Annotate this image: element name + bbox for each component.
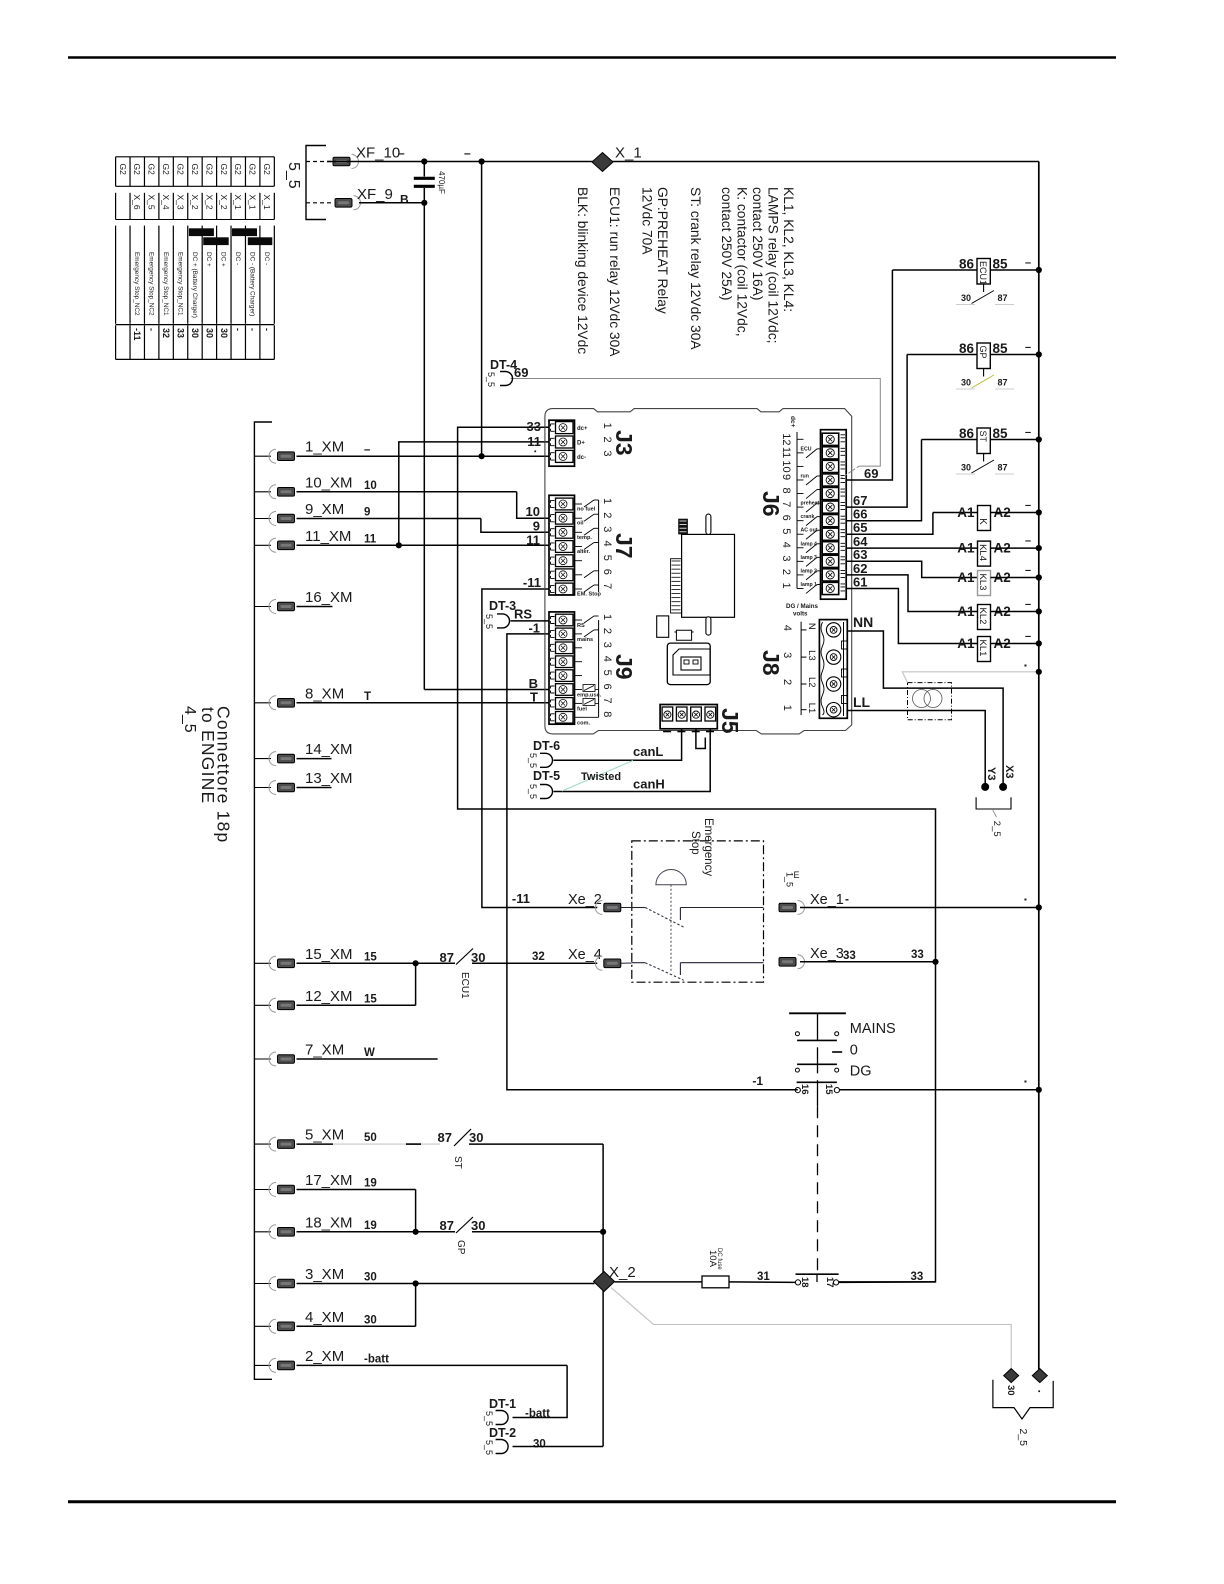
controller module outline bbox=[545, 409, 852, 734]
cable bracket 5_5 bbox=[306, 146, 326, 220]
svg-text:A1: A1 bbox=[957, 505, 975, 520]
svg-text:X3: X3 bbox=[1003, 765, 1015, 778]
junction 1_XM minus bbox=[479, 453, 485, 459]
svg-text:KL3: KL3 bbox=[977, 574, 988, 591]
svg-text:ECU1: ECU1 bbox=[978, 261, 988, 285]
svg-text:X_1: X_1 bbox=[233, 195, 243, 210]
svg-text:3: 3 bbox=[780, 555, 792, 561]
wire NN through CT to X3 bbox=[908, 688, 1004, 787]
svg-text:no fuel: no fuel bbox=[577, 507, 596, 513]
connector 11_XM bbox=[254, 544, 271, 546]
svg-text:12: 12 bbox=[780, 433, 792, 445]
svg-text:7: 7 bbox=[601, 583, 613, 589]
svg-text:A1: A1 bbox=[957, 604, 975, 619]
svg-text:Twisted: Twisted bbox=[581, 771, 621, 783]
svg-text:J3: J3 bbox=[611, 430, 637, 456]
wire XF_9 to capacitor bbox=[359, 202, 424, 204]
svg-text:X_2: X_2 bbox=[609, 1264, 636, 1281]
svg-text:11_XM: 11_XM bbox=[305, 528, 351, 545]
svg-text:DT-3: DT-3 bbox=[489, 599, 516, 613]
svg-text:alter.: alter. bbox=[577, 549, 591, 555]
svg-text:4_5: 4_5 bbox=[181, 706, 198, 733]
internal component clip bbox=[674, 630, 693, 640]
svg-text:mains: mains bbox=[577, 637, 593, 643]
emergency stop contact 2 bbox=[632, 962, 645, 964]
svg-text:2: 2 bbox=[781, 679, 793, 685]
svg-text:G2: G2 bbox=[233, 164, 243, 176]
connector 4_XM bbox=[254, 1325, 271, 1327]
J9 switch rail bbox=[598, 620, 600, 717]
svg-text:4_XM: 4_XM bbox=[305, 1309, 344, 1326]
wire 10 elbow bbox=[517, 492, 549, 518]
connector J5 bbox=[660, 705, 717, 729]
wire 4_XM bbox=[297, 1325, 416, 1327]
svg-text:run: run bbox=[801, 473, 809, 479]
svg-text:KL1: KL1 bbox=[977, 640, 988, 657]
svg-text:A1: A1 bbox=[957, 636, 975, 651]
svg-text:-: - bbox=[147, 328, 157, 331]
svg-text:NN: NN bbox=[853, 614, 873, 630]
wire ECU1 86 bbox=[892, 269, 977, 271]
svg-text:19: 19 bbox=[364, 1220, 377, 1232]
svg-text:dc-: dc- bbox=[577, 455, 586, 461]
svg-text:Xe_3: Xe_3 bbox=[810, 946, 844, 962]
svg-text:30: 30 bbox=[469, 1130, 483, 1145]
wire contact 17 to 33 bbox=[839, 1281, 936, 1284]
relay GP contact 30-87 bbox=[983, 369, 985, 377]
wire 17_XM bbox=[297, 1189, 416, 1191]
svg-text:DT-5: DT-5 bbox=[533, 769, 560, 783]
svg-text:Xe_2: Xe_2 bbox=[568, 892, 602, 908]
wire 33 net bbox=[458, 427, 936, 1282]
wire GP 85 to bus bbox=[990, 354, 1039, 356]
svg-text:J9: J9 bbox=[611, 654, 637, 680]
svg-text:1: 1 bbox=[781, 705, 793, 711]
wire 5_XM gray segment bbox=[333, 1143, 440, 1145]
svg-text:-1: -1 bbox=[752, 1074, 763, 1088]
svg-text:50: 50 bbox=[364, 1132, 377, 1144]
emergency stop box bbox=[632, 841, 764, 982]
connector XF_10 bbox=[306, 161, 332, 163]
svg-text:3_XM: 3_XM bbox=[305, 1266, 344, 1283]
wire ST 86 bbox=[922, 439, 978, 441]
wire 11_XM bbox=[297, 544, 550, 546]
svg-text:fuel: fuel bbox=[577, 706, 587, 712]
relay KL4 coil bbox=[978, 541, 991, 566]
relay KL2 coil bbox=[978, 605, 991, 630]
connector diamond minus bbox=[1032, 1369, 1047, 1383]
svg-text:GP: GP bbox=[978, 346, 988, 359]
border top rule bbox=[68, 56, 1116, 59]
table wire marker bars bbox=[189, 228, 214, 236]
connector 8_XM bbox=[254, 702, 271, 704]
svg-text:▪: ▪ bbox=[1024, 895, 1027, 904]
svg-text:10A: 10A bbox=[707, 1250, 718, 1268]
cable bracket 2_5 bottom bbox=[993, 1380, 1053, 1419]
svg-text:16: 16 bbox=[799, 1084, 810, 1095]
junction 11_XM to J3 bbox=[396, 542, 402, 548]
svg-text:5_XM: 5_XM bbox=[305, 1127, 344, 1144]
svg-text:DC + (Battery Charger): DC + (Battery Charger) bbox=[191, 252, 198, 318]
svg-text:-batt: -batt bbox=[364, 1353, 389, 1365]
internal relay block bbox=[682, 534, 735, 617]
svg-text:Stop: Stop bbox=[689, 831, 701, 855]
svg-text:ST: crank relay 12Vdc 30A: ST: crank relay 12Vdc 30A bbox=[688, 187, 703, 350]
twisted pair marker bbox=[562, 761, 633, 792]
J7 switch rail bbox=[598, 500, 600, 592]
svg-text:10: 10 bbox=[780, 460, 792, 472]
svg-text:–: – bbox=[1025, 500, 1031, 512]
svg-text:DC - (Battery Charger): DC - (Battery Charger) bbox=[248, 252, 255, 316]
relay KL3 coil bbox=[978, 571, 991, 596]
wire net minus vertical bbox=[481, 162, 483, 457]
svg-text:oil: oil bbox=[577, 521, 584, 527]
svg-text:30: 30 bbox=[471, 1218, 485, 1233]
svg-text:ECU: ECU bbox=[801, 446, 812, 452]
node X_1 bbox=[592, 153, 613, 172]
svg-text:B: B bbox=[400, 193, 409, 207]
svg-text:86: 86 bbox=[959, 426, 975, 441]
svg-text:XF_9: XF_9 bbox=[357, 186, 393, 203]
svg-text:1: 1 bbox=[780, 582, 792, 588]
svg-text:Xe_4: Xe_4 bbox=[568, 947, 602, 963]
selector contact 18-17 bbox=[796, 1273, 839, 1275]
svg-text:7: 7 bbox=[601, 697, 613, 703]
junction top-capacitor bbox=[421, 158, 427, 164]
current transformer bbox=[908, 683, 952, 720]
svg-text:emp.usc.: emp.usc. bbox=[577, 693, 602, 699]
wire 2_XM to DT-1 bbox=[513, 1365, 568, 1417]
svg-text:DC -: DC - bbox=[263, 252, 270, 265]
svg-text:X_6: X_6 bbox=[132, 195, 142, 210]
svg-text:DC +: DC + bbox=[220, 252, 227, 267]
svg-text:G2: G2 bbox=[147, 164, 157, 176]
wire 69 bbox=[846, 270, 892, 480]
wire ST 85 to bus bbox=[990, 439, 1039, 441]
connector 7_XM bbox=[254, 1058, 271, 1060]
svg-text:DT-2: DT-2 bbox=[489, 1426, 516, 1440]
connector 3_XM bbox=[254, 1283, 271, 1285]
svg-text:4: 4 bbox=[780, 542, 792, 548]
connector 13_XM bbox=[254, 787, 271, 789]
svg-text:EM. Stop: EM. Stop bbox=[577, 592, 602, 598]
svg-text:canH: canH bbox=[633, 777, 665, 792]
wire X_2 to fuse bbox=[615, 1281, 703, 1283]
svg-text:8: 8 bbox=[601, 711, 613, 717]
svg-text:86: 86 bbox=[959, 257, 975, 272]
svg-text:G2: G2 bbox=[219, 164, 229, 176]
wire 14_XM bbox=[297, 758, 332, 760]
svg-text:10: 10 bbox=[364, 480, 377, 492]
J8 pin bracket bbox=[800, 622, 802, 715]
wire KL2 A2 to bus bbox=[991, 611, 1039, 613]
svg-text:-1: -1 bbox=[528, 621, 540, 636]
svg-text:–: – bbox=[1025, 535, 1031, 547]
svg-text:-: - bbox=[233, 328, 243, 331]
emergency stop contact 1 bbox=[632, 907, 645, 909]
svg-text:ECU1: ECU1 bbox=[459, 972, 470, 999]
svg-text:30: 30 bbox=[364, 1314, 377, 1326]
svg-text:11: 11 bbox=[780, 447, 792, 458]
svg-text:5_5: 5_5 bbox=[484, 1411, 494, 1426]
svg-text:3: 3 bbox=[601, 526, 613, 532]
relay KL1 coil bbox=[978, 637, 991, 662]
svg-text:30: 30 bbox=[219, 328, 229, 338]
wire 3_XM bbox=[297, 1283, 595, 1285]
svg-text:15: 15 bbox=[823, 1084, 834, 1095]
svg-text:12Vdc 70A: 12Vdc 70A bbox=[640, 187, 655, 255]
svg-text:Emergency Stop_NC1: Emergency Stop_NC1 bbox=[162, 252, 169, 316]
svg-text:L1: L1 bbox=[806, 703, 817, 714]
svg-text:87: 87 bbox=[998, 378, 1008, 388]
connector 1_XM bbox=[254, 455, 271, 457]
svg-text:–: – bbox=[1025, 257, 1031, 269]
wire 15 join bbox=[415, 963, 417, 1005]
svg-text:11: 11 bbox=[364, 533, 377, 545]
svg-text:9: 9 bbox=[364, 507, 370, 519]
svg-text:1: 1 bbox=[601, 614, 613, 620]
svg-text:J8: J8 bbox=[758, 650, 784, 676]
svg-text:30: 30 bbox=[961, 293, 971, 303]
svg-text:5_5: 5_5 bbox=[486, 372, 496, 387]
svg-text:17_XM: 17_XM bbox=[305, 1172, 353, 1189]
connector 9_XM bbox=[254, 518, 271, 520]
fuse DC 10A bbox=[702, 1276, 729, 1288]
capacitor 470uF bbox=[423, 162, 425, 177]
svg-text:▪: ▪ bbox=[1024, 1077, 1027, 1086]
svg-text:–: – bbox=[1025, 631, 1031, 643]
svg-text:0: 0 bbox=[850, 1043, 858, 1059]
svg-text:10: 10 bbox=[526, 504, 540, 519]
svg-text:2: 2 bbox=[780, 569, 792, 575]
svg-text:9: 9 bbox=[780, 474, 792, 480]
internal pin strip bbox=[671, 559, 682, 613]
wire net B bbox=[423, 203, 425, 690]
svg-text:11: 11 bbox=[527, 434, 541, 449]
svg-text:470µF: 470µF bbox=[437, 171, 446, 194]
svg-text:4: 4 bbox=[781, 625, 793, 631]
svg-text:G2: G2 bbox=[190, 164, 200, 176]
svg-text:KL1, KL2, KL3, KL4:: KL1, KL2, KL3, KL4: bbox=[781, 187, 796, 312]
svg-text:XF_10: XF_10 bbox=[356, 145, 400, 162]
svg-text:19: 19 bbox=[364, 1178, 377, 1190]
wire 8_XM bbox=[297, 702, 550, 704]
wire 16_XM bbox=[297, 606, 333, 608]
svg-text:2: 2 bbox=[601, 628, 613, 634]
svg-text:–: – bbox=[1025, 342, 1031, 354]
svg-text:E: E bbox=[794, 870, 800, 880]
connector J6 bbox=[821, 430, 847, 600]
selector switch MAINS-0-DG bbox=[789, 1012, 846, 1014]
svg-text:RS: RS bbox=[514, 607, 532, 622]
svg-text:86: 86 bbox=[959, 341, 975, 356]
node X_2 bbox=[594, 1272, 615, 1292]
svg-text:G2: G2 bbox=[132, 164, 142, 176]
svg-text:L2: L2 bbox=[806, 677, 817, 688]
wire 65 bbox=[846, 513, 933, 535]
svg-text:KL2: KL2 bbox=[977, 608, 988, 625]
svg-text:2_5: 2_5 bbox=[991, 821, 1002, 837]
svg-text:–: – bbox=[1025, 599, 1031, 611]
svg-text:X_2: X_2 bbox=[190, 195, 200, 210]
svg-text:16_XM: 16_XM bbox=[305, 589, 353, 606]
svg-text:DC +: DC + bbox=[205, 252, 212, 267]
connector 10_XM bbox=[254, 491, 271, 493]
internal connector bbox=[678, 519, 688, 535]
connector diamond 30 bbox=[1004, 1369, 1019, 1383]
svg-text:K: K bbox=[977, 518, 988, 525]
wire NN bbox=[847, 631, 907, 688]
svg-text:ECU1: run relay 12Vdc 30A: ECU1: run relay 12Vdc 30A bbox=[607, 187, 622, 357]
svg-text:DT-1: DT-1 bbox=[489, 1397, 516, 1411]
svg-text:87: 87 bbox=[438, 1130, 452, 1145]
svg-text:10_XM: 10_XM bbox=[305, 474, 353, 491]
svg-text:30: 30 bbox=[533, 1439, 546, 1451]
svg-text:31: 31 bbox=[757, 1271, 770, 1283]
svg-text:X_1: X_1 bbox=[615, 145, 642, 162]
svg-text:5_5: 5_5 bbox=[528, 753, 538, 768]
svg-text:61: 61 bbox=[853, 574, 867, 589]
svg-text:N: N bbox=[806, 623, 817, 630]
wire canH bbox=[554, 729, 711, 792]
svg-text:87: 87 bbox=[440, 1218, 454, 1233]
wire 1_XM bbox=[297, 455, 550, 457]
svg-text:DC -: DC - bbox=[234, 252, 241, 265]
svg-text:LAMPS relay (coil 12Vdc;: LAMPS relay (coil 12Vdc; bbox=[766, 187, 781, 343]
svg-text:-11: -11 bbox=[132, 328, 142, 341]
wire KL3 A2 to bus bbox=[991, 577, 1039, 579]
wire DT-4 leader bbox=[511, 379, 881, 467]
svg-text:Emergency: Emergency bbox=[702, 818, 714, 876]
svg-text:32: 32 bbox=[161, 328, 171, 338]
svg-text:contact 250V 25A): contact 250V 25A) bbox=[719, 187, 734, 301]
svg-text:30: 30 bbox=[961, 463, 971, 473]
svg-text:15_XM: 15_XM bbox=[305, 946, 353, 963]
svg-text:18: 18 bbox=[799, 1277, 810, 1288]
wire 11 to J3 D+ bbox=[399, 442, 549, 545]
svg-text:GP:PREHEAT Relay: GP:PREHEAT Relay bbox=[655, 187, 670, 314]
wire 64 bbox=[846, 547, 977, 549]
wire KL4 A2 to bus bbox=[991, 547, 1039, 549]
usb connector bbox=[667, 643, 710, 685]
svg-text:AC out: AC out bbox=[801, 528, 818, 534]
connector 18_XM bbox=[254, 1231, 271, 1233]
wire 67 bbox=[846, 355, 907, 508]
svg-text:30: 30 bbox=[1005, 1385, 1016, 1396]
svg-text:69: 69 bbox=[864, 466, 878, 481]
connector XF_9 bbox=[306, 202, 334, 204]
connector J3 bbox=[549, 420, 575, 466]
svg-text:-: - bbox=[845, 892, 849, 906]
wire LL bbox=[847, 710, 907, 712]
wire Xe_3 to 33 net bbox=[800, 961, 936, 963]
jumper J5 bbox=[696, 729, 705, 749]
connector 12_XM bbox=[254, 1004, 271, 1006]
svg-text:DG: DG bbox=[850, 1064, 872, 1080]
svg-text:lamp 2: lamp 2 bbox=[801, 568, 818, 574]
svg-text:lamp 3: lamp 3 bbox=[801, 555, 818, 561]
svg-text:D+: D+ bbox=[577, 441, 585, 447]
relay ECU1 contact 30-87 bbox=[983, 284, 985, 292]
wire GP 86 bbox=[907, 354, 977, 356]
relay K coil bbox=[978, 506, 991, 531]
svg-text:15: 15 bbox=[364, 951, 377, 963]
svg-text:–: – bbox=[398, 146, 405, 160]
svg-text:87: 87 bbox=[998, 293, 1008, 303]
svg-text:X_5: X_5 bbox=[147, 195, 157, 210]
svg-text:-: - bbox=[248, 328, 258, 331]
svg-text:X_2: X_2 bbox=[204, 195, 214, 210]
svg-text:G2: G2 bbox=[248, 164, 258, 176]
svg-text:-batt: -batt bbox=[525, 1408, 550, 1420]
svg-text:ST: ST bbox=[452, 1156, 463, 1169]
svg-text:2_5: 2_5 bbox=[1017, 1429, 1029, 1447]
svg-text:30: 30 bbox=[961, 378, 971, 388]
wire K A2 to bus bbox=[991, 512, 1039, 514]
svg-text:30: 30 bbox=[204, 328, 214, 338]
svg-text:G2: G2 bbox=[161, 164, 171, 176]
relay ST coil bbox=[977, 428, 990, 454]
svg-text:Emergency Stop_NC1: Emergency Stop_NC1 bbox=[176, 252, 183, 316]
wire 15_XM bbox=[297, 962, 456, 964]
svg-text:Y3: Y3 bbox=[985, 767, 997, 780]
svg-text:contact 250V 16A): contact 250V 16A) bbox=[750, 187, 765, 301]
svg-text:crank: crank bbox=[801, 514, 815, 520]
svg-text:T: T bbox=[530, 690, 538, 705]
wire K A1 bbox=[933, 512, 978, 514]
svg-text:J5: J5 bbox=[717, 708, 743, 734]
wire 61 bbox=[846, 589, 977, 644]
svg-text:-: - bbox=[262, 328, 272, 331]
svg-text:17: 17 bbox=[824, 1277, 835, 1288]
svg-text:KL4: KL4 bbox=[977, 544, 988, 561]
wire 19 join 17_XM-18_XM bbox=[415, 1190, 417, 1232]
wire X_2 to connector 30 bbox=[611, 1288, 1011, 1370]
svg-text:1: 1 bbox=[601, 423, 613, 429]
svg-text:6: 6 bbox=[601, 684, 613, 690]
svg-text:5_5: 5_5 bbox=[285, 162, 302, 189]
connector table G2 bbox=[116, 156, 275, 158]
svg-text:5: 5 bbox=[780, 528, 792, 534]
wire 5_XM bbox=[297, 1143, 334, 1145]
wire 9 elbow bbox=[481, 519, 549, 533]
svg-text:9_XM: 9_XM bbox=[305, 501, 344, 518]
svg-text:W: W bbox=[364, 1047, 375, 1059]
svg-text:33: 33 bbox=[843, 950, 856, 962]
svg-text:J7: J7 bbox=[611, 533, 637, 559]
svg-text:com.: com. bbox=[577, 720, 591, 726]
wire KL1 A2 to bus bbox=[991, 643, 1039, 645]
wire 18_XM bbox=[297, 1231, 456, 1233]
connector J7 bbox=[549, 495, 575, 595]
svg-text:DT-6: DT-6 bbox=[533, 739, 560, 753]
svg-text:33: 33 bbox=[911, 1271, 924, 1283]
svg-text:RS: RS bbox=[577, 623, 585, 629]
svg-text:preheat: preheat bbox=[801, 501, 820, 507]
svg-text:1_XM: 1_XM bbox=[305, 439, 344, 456]
wire 10_XM bbox=[297, 491, 517, 493]
svg-text:X_3: X_3 bbox=[176, 195, 186, 210]
svg-text:6: 6 bbox=[780, 515, 792, 521]
svg-text:L3: L3 bbox=[806, 650, 817, 661]
svg-text:7_XM: 7_XM bbox=[305, 1042, 344, 1059]
svg-text:8_XM: 8_XM bbox=[305, 685, 344, 702]
wire canL bbox=[554, 729, 682, 761]
svg-text:5_5: 5_5 bbox=[484, 1440, 494, 1455]
wire 9_XM bbox=[297, 518, 481, 520]
svg-text:33: 33 bbox=[527, 419, 541, 434]
svg-text:X_1: X_1 bbox=[248, 195, 258, 210]
